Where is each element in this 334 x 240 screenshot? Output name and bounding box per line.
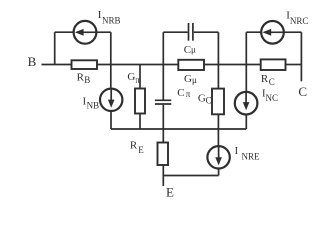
svg-text:I: I (235, 146, 239, 157)
resistor Gpi (135, 65, 145, 130)
capacitor Cmu (189, 23, 193, 41)
label INC (262, 88, 278, 103)
svg-text:π: π (186, 89, 191, 99)
resistor RB (72, 60, 98, 69)
svg-text:C: C (269, 77, 275, 87)
label INRB (98, 9, 121, 25)
svg-text:R: R (261, 73, 269, 85)
wire main line RB to Gmu (97, 64, 178, 66)
wire INRC loop top left segment (246, 31, 262, 33)
svg-text:NRC: NRC (290, 16, 309, 26)
svg-text:G: G (127, 71, 135, 83)
wire main line Gmu to RC (204, 64, 261, 66)
node E terminal label (166, 184, 174, 199)
wire B lead to RB (42, 64, 72, 66)
svg-text:NRE: NRE (242, 152, 261, 162)
svg-text:G: G (184, 73, 192, 85)
current source INC (235, 65, 258, 130)
wire Cmu loop left vertical (162, 32, 164, 64)
capacitor Cpi (155, 65, 171, 143)
wire INRB loop left vertical (54, 32, 56, 64)
svg-text:NB: NB (87, 101, 100, 111)
label INB (83, 97, 100, 111)
label Cmu value (184, 44, 196, 56)
current source INRC (261, 21, 301, 44)
label GC value (198, 92, 212, 105)
label INRE (235, 146, 260, 162)
current source INB (100, 65, 122, 130)
svg-text:R: R (130, 139, 138, 151)
svg-text:μ: μ (191, 45, 196, 55)
svg-text:C: C (177, 87, 184, 99)
current source INRE (207, 129, 229, 176)
svg-text:π: π (135, 75, 140, 85)
label RC value (261, 73, 275, 87)
svg-text:B: B (84, 75, 90, 85)
svg-text:E: E (138, 145, 144, 155)
svg-text:NC: NC (266, 93, 279, 103)
svg-text:C: C (206, 95, 212, 105)
label Cpi value (177, 87, 191, 99)
wire INRB loop right vertical (110, 32, 112, 64)
svg-text:E: E (166, 184, 174, 197)
wire Cmu loop right vertical down to GC (217, 32, 219, 88)
current source INRB (74, 21, 111, 44)
resistor RC (261, 59, 286, 70)
label INRC (286, 10, 308, 26)
label RB value (77, 71, 91, 85)
wire INRC loop right vertical / C lead (300, 32, 302, 81)
wire Cmu loop top right segment (194, 31, 219, 33)
wire INRB loop top left segment (55, 31, 75, 33)
resistor Gmu (178, 60, 204, 70)
node B terminal label (28, 54, 37, 69)
wire bottom rail (111, 128, 246, 130)
label Gmu value (184, 73, 197, 85)
resistor RE (158, 143, 169, 187)
label RE value (130, 139, 144, 155)
label Gpi value (127, 71, 140, 85)
svg-text:C: C (184, 44, 191, 56)
svg-text:C: C (298, 84, 307, 99)
wire emitter bottom connector (163, 175, 218, 177)
resistor GC (212, 89, 224, 129)
node C terminal label (298, 84, 307, 99)
svg-text:B: B (28, 54, 37, 69)
wire main line RC to C (286, 64, 302, 66)
wire Cmu loop top left segment (163, 31, 187, 33)
wire INRC loop left vertical (245, 32, 247, 64)
svg-text:μ: μ (192, 75, 197, 85)
svg-text:NRB: NRB (102, 16, 121, 26)
